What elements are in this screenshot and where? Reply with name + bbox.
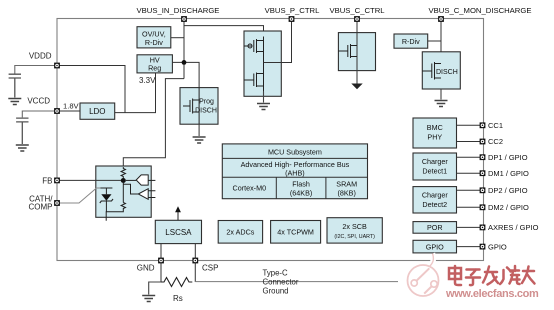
svg-text:4x TCPWM: 4x TCPWM bbox=[277, 228, 314, 237]
ground below Prog DISCH bbox=[193, 137, 206, 143]
wire HV Reg to junction and Prog DISCH bbox=[172, 62, 199, 87]
wire R-Div to VBUS_C_MON rail bbox=[428, 40, 441, 42]
block GPIO bbox=[413, 240, 457, 253]
node CSP bbox=[192, 258, 198, 264]
resistor R1 upper feedback divider bbox=[121, 167, 125, 178]
resistor Rs sense bbox=[161, 278, 192, 287]
wire OV/UV box to VBUS_IN rail bbox=[171, 37, 184, 39]
svg-text:3.3V: 3.3V bbox=[139, 76, 156, 85]
watermark logo circle bbox=[408, 254, 439, 297]
svg-text:POR: POR bbox=[427, 223, 443, 232]
svg-text:CSP: CSP bbox=[202, 264, 218, 273]
wire GND node drop and elbow to ground bbox=[149, 261, 161, 295]
svg-text:Flash: Flash bbox=[292, 180, 310, 189]
node VBUS_C_MON_DISCHARGE bbox=[438, 16, 444, 22]
wire R2 bottom elbow to block exit bbox=[106, 210, 123, 221]
ground below P-FET block bbox=[257, 104, 270, 110]
wire P-block to ground bbox=[263, 92, 265, 103]
wire VBUS_IN vertical rail bbox=[183, 19, 185, 79]
wire FB pin to divider midpoint bbox=[57, 179, 123, 181]
svg-text:VDDD: VDDD bbox=[29, 52, 52, 61]
wire VCCD to LDO bbox=[57, 110, 80, 112]
node VCCD bbox=[54, 108, 60, 114]
transistor Q5 prog discharge FET bbox=[183, 99, 199, 114]
wire VBUS_C_MON node drop bbox=[440, 19, 442, 89]
wire LSCSA output arrow bbox=[177, 212, 179, 221]
box HV Reg bbox=[137, 55, 172, 73]
svg-text:Prog: Prog bbox=[199, 99, 214, 106]
wire DAC output stub bbox=[148, 179, 155, 181]
ground below VCCD capacitor bbox=[16, 145, 29, 151]
svg-text:R-Div: R-Div bbox=[402, 37, 420, 46]
wire P-block internal drain-source rail bbox=[263, 37, 265, 92]
svg-text:GPIO: GPIO bbox=[426, 242, 444, 251]
wire Charger Detect1 to DP1 bbox=[457, 156, 481, 158]
wire Prog DISCH to ground bbox=[198, 124, 200, 136]
svg-text:Detect1: Detect1 bbox=[422, 167, 447, 176]
svg-text:Reg: Reg bbox=[148, 64, 161, 73]
svg-text:Detect2: Detect2 bbox=[422, 200, 447, 209]
transistor block VBUS_C_CTRL bbox=[338, 33, 375, 71]
node DP2 bbox=[480, 187, 486, 193]
wire GPIO to pin bbox=[457, 246, 481, 248]
svg-text:R-Div: R-Div bbox=[145, 38, 163, 47]
block Prog DISCH bbox=[180, 88, 218, 125]
transistor Q2 bottom PFET bbox=[244, 73, 264, 88]
zener diode top bar and stem bbox=[100, 188, 112, 194]
node FB bbox=[54, 178, 60, 184]
wire Charger Detect1 to DM1 bbox=[457, 172, 481, 174]
watermark text dianzifashaoyou bbox=[449, 266, 535, 285]
wire LDO output to HV Reg bottom bbox=[115, 73, 156, 113]
svg-text:DM2 / GPIO: DM2 / GPIO bbox=[488, 203, 529, 212]
MCU Subsystem table bbox=[222, 144, 367, 199]
svg-text:(AHB): (AHB) bbox=[285, 168, 305, 177]
block Charger Detect1 bbox=[413, 153, 457, 180]
wire comparator output stubs bbox=[148, 191, 155, 198]
svg-text:CC1: CC1 bbox=[488, 121, 503, 130]
svg-text:PHY: PHY bbox=[427, 133, 442, 142]
svg-text:Charger: Charger bbox=[422, 157, 449, 166]
svg-text:OV/UV,: OV/UV, bbox=[142, 29, 166, 38]
reference DAC symbol U1 bbox=[136, 175, 148, 185]
wire Prog DISCH internal rail bbox=[198, 88, 200, 125]
node DP1 bbox=[480, 154, 486, 160]
node VBUS_P_CTRL bbox=[289, 16, 295, 22]
junction dot on VBUS_IN rail bbox=[182, 60, 187, 65]
box R-Div bbox=[394, 34, 428, 48]
block BMC PHY bbox=[413, 118, 457, 148]
svg-text:VBUS_P_CTRL: VBUS_P_CTRL bbox=[265, 6, 320, 15]
node AXRES bbox=[480, 225, 486, 231]
wire Type-C connector ground line bbox=[195, 281, 398, 283]
svg-text:VBUS_IN_DISCHARGE: VBUS_IN_DISCHARGE bbox=[137, 6, 220, 15]
wire C-block to ground arrow bbox=[356, 71, 358, 84]
block POR bbox=[413, 222, 457, 234]
wire divider mid down to R2 bbox=[122, 183, 124, 203]
capacitor on VDDD bbox=[9, 74, 21, 97]
svg-text:www.elecfans.com: www.elecfans.com bbox=[445, 288, 539, 300]
node DM2 bbox=[480, 204, 486, 210]
block 2x ADCs bbox=[218, 221, 262, 244]
chip outer boundary box bbox=[57, 19, 484, 261]
block 4x TCPWM bbox=[271, 221, 321, 244]
svg-text:Rs: Rs bbox=[173, 294, 183, 303]
wire VDDD external bbox=[15, 66, 57, 74]
svg-text:Charger: Charger bbox=[422, 191, 449, 200]
transistor block DISCH bbox=[422, 52, 460, 89]
wire VBUS_IN to P-FET block bbox=[184, 26, 264, 37]
wire CSP node drop bbox=[194, 261, 196, 283]
svg-text:LSCSA: LSCSA bbox=[165, 228, 192, 237]
transistor Q4 discharge FET bbox=[422, 62, 441, 80]
capacitor on VCCD bbox=[16, 118, 28, 144]
zener diode D1 bbox=[101, 194, 111, 201]
node CC1 bbox=[480, 122, 486, 128]
svg-text:Ground: Ground bbox=[263, 287, 289, 296]
error amplifier block (secondary-side regulation) bbox=[96, 166, 151, 217]
box OV/UV R-Div bbox=[137, 27, 171, 48]
node VBUS_IN_DISCHARGE bbox=[181, 16, 187, 22]
wire FB node to DAC tip bbox=[126, 179, 136, 181]
wire LSCSA to GND node bbox=[160, 244, 162, 258]
svg-text:CC2: CC2 bbox=[488, 137, 503, 146]
svg-text:(8KB): (8KB) bbox=[338, 188, 356, 197]
svg-text:GPIO: GPIO bbox=[488, 242, 507, 251]
svg-text:Connector: Connector bbox=[263, 278, 299, 287]
junction dot FB node bbox=[121, 178, 126, 183]
transistor Q3 consumer FET bbox=[338, 44, 357, 58]
ground below GND node bbox=[142, 296, 155, 302]
wire POR to AXRES bbox=[457, 226, 481, 228]
node GND bbox=[158, 258, 164, 264]
wire CATH/COMP pin diagonal bbox=[57, 188, 100, 203]
node CC2 bbox=[480, 139, 486, 145]
svg-text:COMP: COMP bbox=[29, 203, 53, 212]
svg-text:1.8V: 1.8V bbox=[63, 102, 80, 111]
transistor block VBUS_P_CTRL (provider FET pair) bbox=[244, 31, 281, 96]
svg-text:BMC: BMC bbox=[427, 123, 443, 132]
wire jog to comparator input bbox=[123, 184, 138, 194]
svg-text:MCU Subsystem: MCU Subsystem bbox=[268, 147, 322, 156]
wire mid tap to VBUS_P_CTRL node bbox=[264, 19, 292, 63]
svg-text:AXRES / GPIO: AXRES / GPIO bbox=[488, 223, 539, 232]
LDO regulator box bbox=[80, 103, 115, 119]
node GPIO bbox=[480, 244, 486, 250]
svg-text:DP2 / GPIO: DP2 / GPIO bbox=[488, 186, 528, 195]
svg-text:(64KB): (64KB) bbox=[290, 188, 312, 197]
svg-text:VBUS_C_MON_DISCHARGE: VBUS_C_MON_DISCHARGE bbox=[429, 6, 532, 15]
ground arrow below C-FET block bbox=[351, 84, 362, 90]
svg-text:VCCD: VCCD bbox=[27, 97, 50, 106]
wire LSCSA to CSP node bbox=[194, 244, 196, 258]
svg-text:FB: FB bbox=[42, 177, 52, 186]
wire Charger Detect2 to DM2 bbox=[457, 206, 481, 208]
svg-text:Type-C: Type-C bbox=[263, 269, 288, 278]
wire DISCH block to ground bbox=[440, 89, 442, 100]
wire Charger Detect2 to DP2 bbox=[457, 189, 481, 191]
wire VCCD external bbox=[22, 111, 57, 117]
transistor Q1 top PFET bbox=[244, 39, 264, 53]
svg-text:DP1 / GPIO: DP1 / GPIO bbox=[488, 153, 528, 162]
resistor R2 lower feedback divider bbox=[121, 203, 125, 210]
svg-text:GND: GND bbox=[137, 264, 155, 273]
block Charger Detect2 bbox=[413, 187, 457, 213]
wire VBUS_C_CTRL node drop through block bbox=[356, 19, 358, 71]
svg-text:2x SCB: 2x SCB bbox=[342, 222, 367, 231]
node VDDD bbox=[54, 63, 60, 69]
wire BMC PHY to CC2 bbox=[457, 141, 481, 143]
wire zener cathode down join bbox=[105, 201, 107, 212]
block LSCSA current sense amp bbox=[155, 220, 201, 243]
svg-text:2x ADCs: 2x ADCs bbox=[226, 228, 254, 237]
wire VBUS_IN feedback divider feed to error amp bbox=[123, 79, 184, 167]
svg-text:SRAM: SRAM bbox=[336, 180, 357, 189]
wire VDDD internal to LDO output rail bbox=[57, 66, 125, 113]
ground below VDDD capacitor bbox=[8, 99, 21, 105]
comparator U2 bbox=[138, 189, 148, 200]
svg-text:Cortex-M0: Cortex-M0 bbox=[233, 184, 267, 193]
svg-text:LDO: LDO bbox=[89, 107, 105, 116]
ground below DISCH block bbox=[435, 101, 448, 107]
svg-text:DISCH: DISCH bbox=[436, 69, 458, 76]
svg-text:VBUS_C_CTRL: VBUS_C_CTRL bbox=[329, 6, 385, 15]
node DM1 bbox=[480, 170, 486, 176]
block 2x SCB bbox=[327, 218, 382, 243]
svg-text:DISCH: DISCH bbox=[195, 108, 217, 115]
node VBUS_C_CTRL bbox=[354, 16, 360, 22]
svg-text:DM1 / GPIO: DM1 / GPIO bbox=[488, 169, 529, 178]
svg-text:(I2C, SPI, UART): (I2C, SPI, UART) bbox=[334, 234, 375, 240]
wire BMC PHY to CC1 bbox=[457, 124, 481, 126]
node CATH/COMP bbox=[54, 200, 60, 206]
